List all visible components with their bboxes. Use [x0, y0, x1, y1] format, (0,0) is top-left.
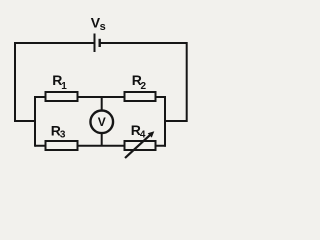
wire voltmeter top lead [101, 97, 103, 112]
svg-text:1: 1 [61, 81, 67, 92]
resistor R1 [46, 92, 78, 101]
wire right bridge stub [164, 96, 166, 147]
wire left bridge stub [34, 96, 36, 147]
wire voltmeter bottom lead [101, 131, 103, 146]
voltmeter V [90, 111, 113, 134]
resistor R4 (variable) [125, 141, 156, 150]
svg-text:3: 3 [60, 129, 66, 140]
svg-text:s: s [100, 21, 106, 33]
svg-text:2: 2 [141, 81, 147, 92]
resistor R3 [46, 141, 78, 150]
wire top row (R1 - R2 branch) [35, 96, 166, 98]
resistor R2 [125, 92, 156, 101]
wire bottom row (R3 - R4 branch) [35, 145, 166, 147]
wire top-left loop (battery to left side down to left junction) [15, 43, 95, 121]
variable resistor arrow of R4 [125, 131, 154, 158]
svg-text:4: 4 [140, 129, 146, 140]
svg-text:V: V [98, 115, 106, 129]
wire top-right loop (battery to right side down to right junction) [100, 43, 187, 121]
battery Vs (voltage source) [95, 34, 100, 53]
